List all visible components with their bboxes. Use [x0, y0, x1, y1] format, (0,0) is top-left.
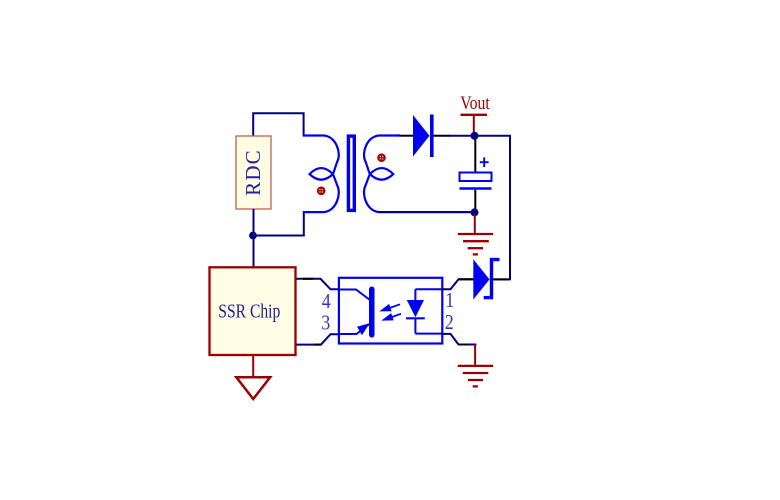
ground triangle under SSR — [236, 377, 270, 399]
wire capacitor to node2 (black) — [474, 190, 476, 211]
svg-text:1: 1 — [445, 288, 454, 312]
pin1 black segment — [458, 278, 473, 280]
wire node1 down to capacitor (black) — [474, 139, 476, 173]
wire opto pin1 to zener — [442, 279, 459, 289]
pin diode anode (black) — [400, 135, 414, 137]
ground earth upper — [458, 234, 493, 254]
wire RDC bottom stub — [253, 209, 255, 236]
pin zener anode (black) — [458, 278, 473, 280]
wire opto pin2 to ground — [442, 334, 459, 345]
wire SSR pin4 to opto — [296, 279, 339, 290]
pin diode cathode (black) — [434, 135, 450, 137]
transformer T1 primary winding — [303, 136, 339, 213]
optocoupler U2 box — [339, 278, 442, 344]
wire SSR pin3 to opto — [296, 334, 339, 344]
wire top loop above RDC — [252, 112, 304, 136]
zener diode DZ — [473, 258, 499, 300]
svg-text:Vout: Vout — [460, 93, 490, 114]
pin zener cathode (black) — [494, 278, 509, 280]
wire junction to SSR chip — [253, 236, 255, 268]
wire diode to node1 — [449, 135, 474, 137]
opto LED — [406, 289, 442, 333]
diode D1 — [413, 115, 434, 158]
resistor RDC — [236, 136, 271, 209]
opto phototransistor Q — [339, 287, 375, 338]
pin3 black segment — [314, 344, 321, 346]
node junction at RDC bottom — [249, 232, 257, 240]
wire pin2 tail to ground stem — [467, 344, 476, 346]
transformer T1 secondary winding — [364, 136, 400, 213]
svg-text:2: 2 — [445, 310, 454, 334]
node 2 junction — [471, 208, 479, 216]
ground earth lower right — [458, 366, 493, 387]
node Vout junction — [471, 132, 479, 140]
wire secondary bottom to node — [379, 211, 474, 213]
capacitor C1 plus sign — [480, 157, 489, 167]
wire SSR to chassis ground — [252, 355, 254, 377]
svg-text:3: 3 — [321, 311, 330, 335]
wire node1 right and down to zener — [474, 135, 510, 281]
wire node2 to upper ground — [474, 214, 476, 234]
pin2 black segment — [458, 344, 467, 346]
transformer core — [348, 136, 354, 210]
pin4 black segment — [303, 278, 314, 280]
svg-text:RDC: RDC — [241, 149, 265, 196]
svg-text:SSR Chip: SSR Chip — [218, 301, 280, 323]
power port Vout — [460, 93, 490, 136]
transformer polarity dot primary — [317, 187, 326, 196]
wire pin2 down to lower ground — [474, 345, 476, 366]
capacitor C1 — [460, 173, 492, 189]
transformer polarity dot secondary — [377, 153, 386, 162]
wire primary bottom return — [253, 212, 305, 237]
opto light arrows — [382, 304, 401, 319]
SSR Chip U1 — [210, 267, 296, 355]
svg-text:4: 4 — [322, 289, 331, 313]
